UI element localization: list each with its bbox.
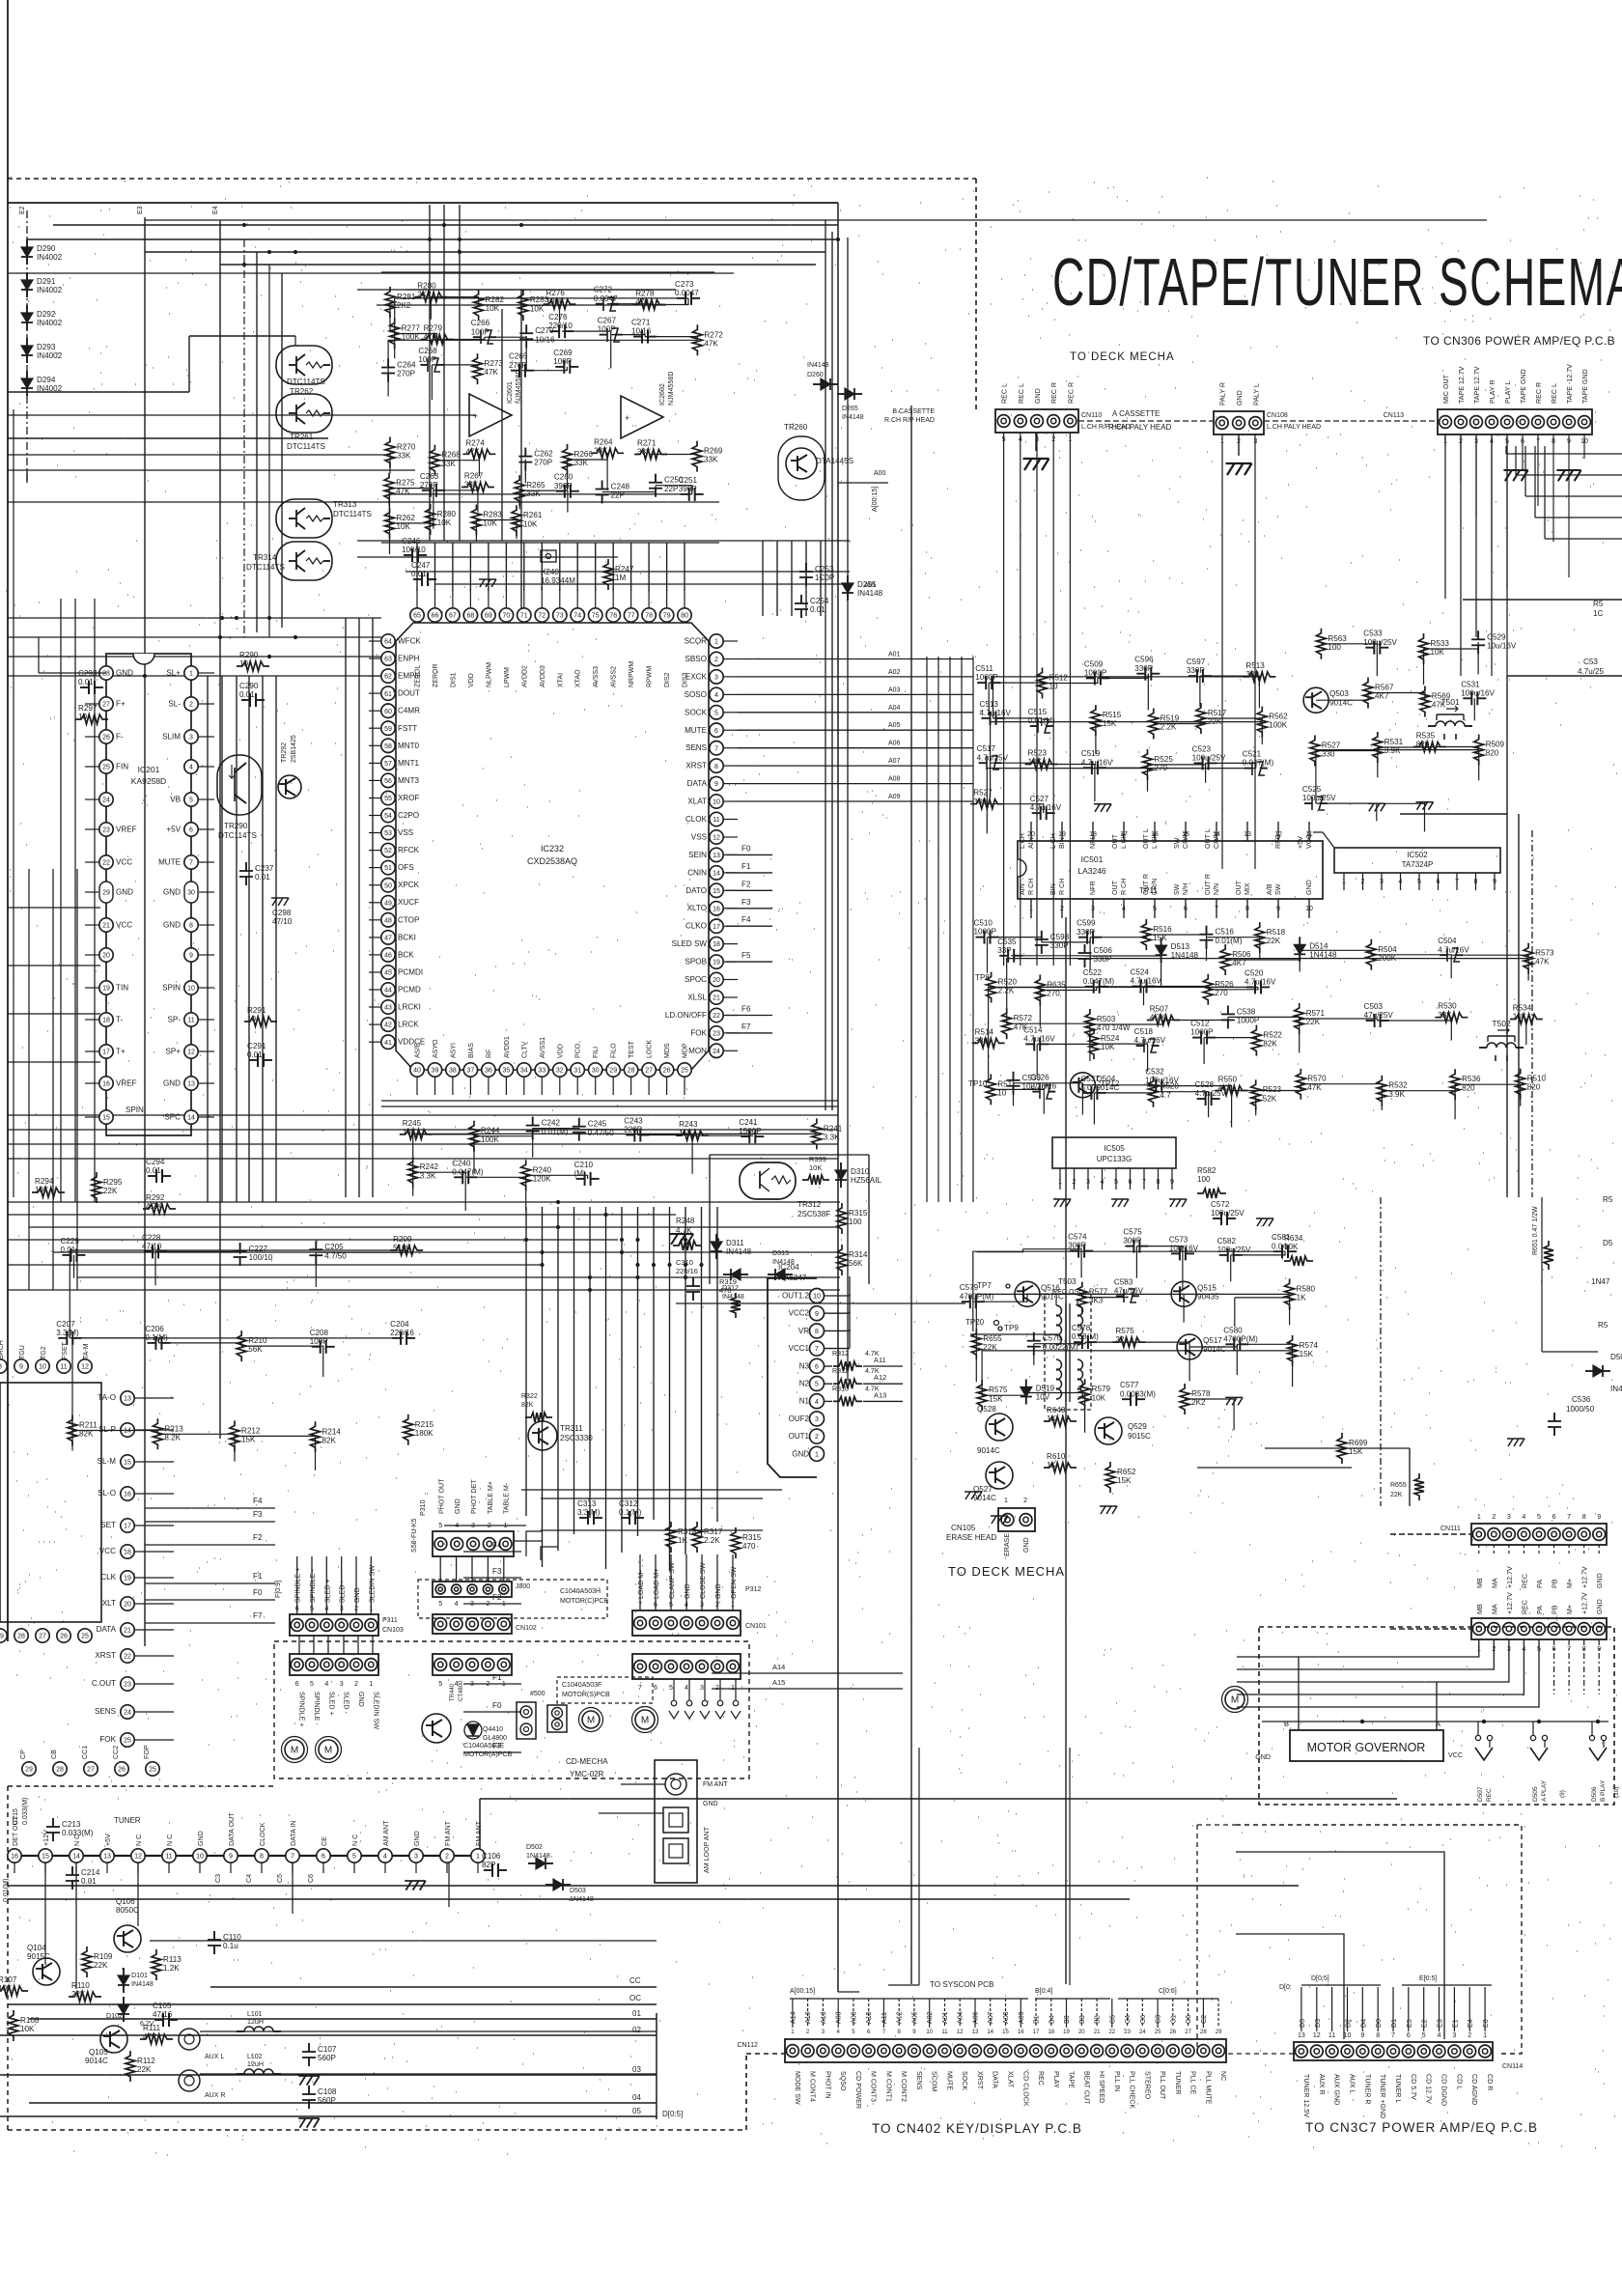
svg-text:7: 7 bbox=[1567, 1513, 1571, 1521]
svg-text:6: 6 bbox=[1407, 2031, 1411, 2039]
svg-text:21: 21 bbox=[713, 995, 720, 1002]
svg-text:SPOB: SPOB bbox=[685, 958, 708, 966]
svg-text:100P: 100P bbox=[553, 357, 572, 366]
svg-text:IN4002: IN4002 bbox=[37, 319, 63, 327]
svg-text:59: 59 bbox=[384, 726, 392, 733]
svg-text:10K: 10K bbox=[523, 519, 538, 528]
svg-text:C574: C574 bbox=[1068, 1233, 1087, 1242]
svg-text:6: 6 bbox=[295, 1680, 299, 1688]
svg-text:47u/25V: 47u/25V bbox=[1364, 1011, 1394, 1020]
svg-text:IC232: IC232 bbox=[541, 844, 564, 854]
svg-text:R243: R243 bbox=[679, 1120, 698, 1129]
svg-text:1: 1 bbox=[714, 639, 718, 646]
svg-text:F7: F7 bbox=[253, 1611, 263, 1620]
svg-text:D313: D313 bbox=[772, 1249, 789, 1257]
svg-text:R212: R212 bbox=[241, 1426, 261, 1435]
svg-text:6: 6 bbox=[815, 1363, 819, 1370]
svg-text:XLAT: XLAT bbox=[687, 798, 707, 806]
svg-text:17: 17 bbox=[1033, 2030, 1040, 2035]
svg-text:C251: C251 bbox=[679, 476, 698, 485]
svg-text:R315: R315 bbox=[849, 1209, 868, 1218]
svg-text:820: 820 bbox=[1486, 749, 1499, 758]
svg-text:R262: R262 bbox=[397, 514, 416, 522]
svg-text:IN4148: IN4148 bbox=[131, 1980, 154, 1988]
svg-text:24: 24 bbox=[124, 1710, 131, 1717]
svg-text:STEREO: STEREO bbox=[1143, 2071, 1151, 2100]
svg-text:4.7u/16V: 4.7u/16V bbox=[1030, 803, 1062, 812]
svg-text:SLED SW: SLED SW bbox=[672, 939, 708, 948]
svg-text:CLOCK: CLOCK bbox=[259, 1822, 266, 1846]
svg-text:43: 43 bbox=[384, 1005, 392, 1012]
svg-text:33K: 33K bbox=[464, 481, 479, 490]
svg-text:(M): (M) bbox=[574, 1169, 586, 1178]
svg-text:3: 3 bbox=[815, 1416, 819, 1423]
svg-text:M: M bbox=[291, 1746, 298, 1756]
svg-text:C538: C538 bbox=[1237, 1007, 1256, 1016]
svg-text:N1: N1 bbox=[799, 1397, 810, 1406]
svg-text:R312: R312 bbox=[832, 1350, 849, 1358]
svg-text:RPWM: RPWM bbox=[647, 666, 654, 687]
svg-text:56: 56 bbox=[384, 778, 392, 785]
svg-text:R271: R271 bbox=[637, 439, 657, 448]
svg-text:51: 51 bbox=[384, 865, 392, 872]
svg-text:R655: R655 bbox=[1390, 1482, 1407, 1489]
svg-text:R578: R578 bbox=[1191, 1389, 1211, 1398]
svg-text:0.047(M): 0.047(M) bbox=[1083, 977, 1115, 986]
svg-text:MIC OUT: MIC OUT bbox=[1442, 374, 1450, 404]
svg-text:ERASE HEAD: ERASE HEAD bbox=[946, 1533, 996, 1542]
svg-text:E4: E4 bbox=[212, 206, 219, 214]
svg-text:SLEDIN SW: SLEDIN SW bbox=[372, 1692, 379, 1729]
svg-text:N C: N C bbox=[166, 1834, 174, 1846]
svg-text:CLTV: CLTV bbox=[521, 1041, 528, 1058]
svg-text:10K: 10K bbox=[35, 1186, 49, 1194]
svg-text:820: 820 bbox=[1416, 741, 1430, 749]
svg-text:20: 20 bbox=[124, 1602, 131, 1609]
svg-text:53: 53 bbox=[384, 830, 392, 837]
svg-text:4: 4 bbox=[189, 765, 193, 771]
svg-text:C582: C582 bbox=[1217, 1237, 1237, 1246]
svg-text:470: 470 bbox=[719, 1286, 732, 1295]
svg-text:R275: R275 bbox=[396, 479, 415, 488]
svg-text:TG2: TG2 bbox=[41, 1346, 47, 1359]
svg-text:XLSL: XLSL bbox=[687, 994, 707, 1002]
svg-text:TO DECK MECHA: TO DECK MECHA bbox=[948, 1564, 1065, 1579]
svg-text:2SC3330: 2SC3330 bbox=[560, 1434, 593, 1442]
svg-text:+12.7V: +12.7V bbox=[1506, 1592, 1514, 1614]
svg-text:SL-O: SL-O bbox=[98, 1489, 116, 1498]
svg-text:24: 24 bbox=[102, 798, 110, 804]
svg-text:16: 16 bbox=[713, 906, 720, 912]
svg-text:SL-M: SL-M bbox=[98, 1457, 117, 1466]
svg-text:29: 29 bbox=[0, 1634, 4, 1640]
svg-text:IC505: IC505 bbox=[1104, 1144, 1125, 1153]
svg-text:01: 01 bbox=[632, 2009, 641, 2018]
svg-text:SP+: SP+ bbox=[165, 1048, 181, 1056]
svg-text:XRST: XRST bbox=[976, 2071, 984, 2090]
svg-text:R5: R5 bbox=[1593, 600, 1604, 608]
svg-text:SLED -: SLED - bbox=[343, 1692, 350, 1715]
svg-text:XLTO: XLTO bbox=[687, 904, 707, 912]
svg-text:4: 4 bbox=[455, 1522, 459, 1529]
svg-text:C575: C575 bbox=[1123, 1228, 1142, 1237]
svg-text:OUT: OUT bbox=[1111, 833, 1119, 849]
svg-text:R265: R265 bbox=[526, 481, 545, 490]
svg-text:C268: C268 bbox=[418, 347, 437, 355]
svg-text:0.01: 0.01 bbox=[239, 690, 255, 699]
svg-text:2.2K: 2.2K bbox=[704, 1536, 720, 1545]
svg-text:FIN: FIN bbox=[116, 763, 128, 771]
svg-text:R522: R522 bbox=[1263, 1031, 1282, 1040]
svg-text:Q104: Q104 bbox=[27, 1944, 46, 1952]
svg-text:R399: R399 bbox=[809, 1155, 826, 1163]
svg-text:R640: R640 bbox=[1047, 1406, 1066, 1414]
svg-text:R5: R5 bbox=[1603, 1195, 1613, 1204]
svg-text:REC: REC bbox=[1521, 1600, 1528, 1614]
svg-text:3: 3 bbox=[470, 1680, 474, 1688]
svg-text:OUT L: OUT L bbox=[1204, 828, 1212, 849]
svg-text:28: 28 bbox=[56, 1767, 64, 1774]
svg-text:R570: R570 bbox=[1307, 1075, 1327, 1083]
svg-text:54: 54 bbox=[384, 813, 392, 820]
svg-text:C583: C583 bbox=[1114, 1277, 1133, 1286]
svg-text:CD R: CD R bbox=[1486, 2074, 1494, 2090]
svg-text:3.3(M): 3.3(M) bbox=[56, 1329, 79, 1337]
svg-text:IN4002: IN4002 bbox=[37, 286, 63, 294]
svg-text:33K: 33K bbox=[637, 448, 652, 457]
svg-text:36: 36 bbox=[485, 1068, 492, 1075]
svg-text:F2: F2 bbox=[253, 1533, 263, 1542]
svg-text:R270: R270 bbox=[397, 443, 416, 452]
svg-text:16: 16 bbox=[11, 1854, 18, 1861]
svg-text:1000P: 1000P bbox=[1190, 1028, 1213, 1037]
svg-text:47/10: 47/10 bbox=[272, 917, 293, 926]
svg-text:BIAS: BIAS bbox=[468, 1043, 475, 1058]
svg-text:15: 15 bbox=[1002, 2030, 1009, 2035]
svg-text:50: 50 bbox=[384, 882, 392, 889]
svg-text:TUNER 12.5V: TUNER 12.5V bbox=[1302, 2074, 1310, 2117]
svg-text:1000P: 1000P bbox=[975, 673, 997, 682]
svg-text:CD L: CD L bbox=[1455, 2074, 1463, 2089]
svg-text:R315: R315 bbox=[742, 1533, 762, 1542]
svg-text:LOAD M+: LOAD M+ bbox=[653, 1569, 660, 1599]
svg-text:22: 22 bbox=[1108, 2030, 1115, 2035]
svg-text:REC L: REC L bbox=[1551, 383, 1558, 404]
svg-text:PA: PA bbox=[1536, 1606, 1544, 1614]
svg-text:LRCK: LRCK bbox=[398, 1021, 419, 1029]
svg-text:OUT R: OUT R bbox=[1204, 874, 1212, 895]
svg-text:VR: VR bbox=[798, 1327, 809, 1335]
svg-text:OC: OC bbox=[629, 1994, 641, 2002]
svg-text:D0: D0 bbox=[1375, 2019, 1383, 2028]
svg-text:AUX L: AUX L bbox=[1349, 2074, 1356, 2094]
svg-text:R655: R655 bbox=[983, 1334, 1002, 1343]
svg-text:R527: R527 bbox=[1322, 742, 1341, 750]
svg-text:26: 26 bbox=[102, 735, 110, 742]
svg-text:D4: D4 bbox=[1359, 2019, 1367, 2028]
svg-text:03: 03 bbox=[632, 2065, 641, 2074]
svg-text:CNIN: CNIN bbox=[687, 868, 707, 877]
svg-text:AM ANT: AM ANT bbox=[382, 1820, 390, 1846]
svg-text:IN414: IN414 bbox=[1610, 1385, 1622, 1393]
svg-text:R264: R264 bbox=[594, 437, 613, 446]
svg-text:SBSO: SBSO bbox=[685, 655, 708, 663]
svg-text:DET OUT: DET OUT bbox=[12, 1815, 19, 1846]
svg-text:DATO: DATO bbox=[685, 886, 707, 895]
svg-text:C5: C5 bbox=[276, 1874, 284, 1883]
svg-text:AUX R: AUX R bbox=[205, 2092, 225, 2099]
svg-text:18: 18 bbox=[713, 941, 720, 948]
svg-text:9015C: 9015C bbox=[27, 1952, 50, 1961]
svg-text:4: 4 bbox=[685, 1684, 688, 1692]
svg-text:GL4800: GL4800 bbox=[483, 1735, 507, 1742]
svg-text:M: M bbox=[641, 1716, 649, 1726]
svg-text:8: 8 bbox=[0, 1364, 2, 1371]
svg-text:76: 76 bbox=[609, 613, 617, 620]
svg-text:C529: C529 bbox=[1487, 632, 1506, 641]
svg-text:D291: D291 bbox=[37, 277, 56, 286]
svg-text:R297: R297 bbox=[78, 704, 98, 713]
svg-text:A13: A13 bbox=[874, 1390, 886, 1399]
svg-text:OFS: OFS bbox=[398, 863, 414, 872]
svg-text:GND: GND bbox=[163, 921, 181, 930]
svg-text:10: 10 bbox=[247, 1015, 257, 1023]
svg-text:10: 10 bbox=[813, 1294, 821, 1301]
svg-text:17: 17 bbox=[713, 924, 720, 931]
svg-text:C522: C522 bbox=[1083, 968, 1103, 977]
svg-text:R247: R247 bbox=[615, 565, 634, 574]
svg-text:10K: 10K bbox=[1028, 758, 1043, 767]
svg-text:0.68(M): 0.68(M) bbox=[1072, 1332, 1099, 1341]
svg-text:17: 17 bbox=[102, 1050, 110, 1056]
svg-text:TP9: TP9 bbox=[1004, 1324, 1019, 1332]
svg-text:VCC: VCC bbox=[116, 921, 132, 930]
svg-text:E0: E0 bbox=[1482, 2019, 1490, 2028]
svg-text:65: 65 bbox=[413, 613, 421, 620]
svg-text:D5: D5 bbox=[1299, 2019, 1306, 2028]
svg-text:GND: GND bbox=[163, 1079, 181, 1088]
svg-text:10: 10 bbox=[187, 986, 195, 993]
svg-text:MNT3: MNT3 bbox=[398, 776, 420, 785]
svg-text:22K: 22K bbox=[1390, 1492, 1403, 1498]
svg-text:SQSO: SQSO bbox=[839, 2071, 847, 2091]
svg-text:C266: C266 bbox=[471, 319, 490, 327]
svg-text:35: 35 bbox=[503, 1068, 511, 1075]
svg-text:3: 3 bbox=[414, 1854, 418, 1861]
svg-text:R575: R575 bbox=[1115, 1327, 1134, 1335]
svg-text:C1040A503H: C1040A503H bbox=[560, 1588, 601, 1595]
svg-text:MUTE: MUTE bbox=[946, 2071, 954, 2090]
svg-text:15: 15 bbox=[124, 1460, 131, 1467]
svg-text:R535: R535 bbox=[1416, 732, 1436, 741]
svg-text:8: 8 bbox=[189, 923, 193, 930]
svg-text:CN111: CN111 bbox=[1440, 1526, 1461, 1532]
svg-text:R112: R112 bbox=[137, 2057, 155, 2065]
svg-text:XLT: XLT bbox=[102, 1599, 116, 1608]
svg-text:33K: 33K bbox=[1438, 1011, 1452, 1020]
svg-text:M+: M+ bbox=[1566, 1579, 1574, 1588]
svg-text:R214: R214 bbox=[322, 1427, 342, 1436]
svg-text:R652: R652 bbox=[1117, 1468, 1136, 1476]
svg-text:TEST: TEST bbox=[629, 1040, 635, 1058]
svg-text:M: M bbox=[324, 1746, 332, 1756]
svg-text:CTOP: CTOP bbox=[398, 915, 419, 924]
svg-text:D[0:: D[0: bbox=[1279, 1984, 1292, 1991]
svg-text:C227: C227 bbox=[249, 1245, 268, 1253]
svg-text:SRCH: SRCH bbox=[0, 1340, 5, 1359]
svg-text:100u/16V: 100u/16V bbox=[1145, 1077, 1179, 1085]
svg-text:L CH: L CH bbox=[1151, 833, 1159, 849]
svg-text:C516: C516 bbox=[1216, 928, 1235, 937]
svg-text:RFC: RFC bbox=[1274, 834, 1282, 849]
svg-text:31: 31 bbox=[573, 1068, 581, 1075]
svg-text:2: 2 bbox=[815, 1434, 819, 1441]
svg-text:C269: C269 bbox=[553, 349, 573, 357]
svg-text:2: 2 bbox=[488, 1522, 491, 1529]
svg-text:10: 10 bbox=[196, 1854, 204, 1861]
svg-text:22: 22 bbox=[1115, 1335, 1125, 1344]
svg-text:4.7u/16V: 4.7u/16V bbox=[1131, 977, 1162, 986]
svg-text:B[0:4]: B[0:4] bbox=[1035, 1988, 1052, 1995]
svg-text:C106: C106 bbox=[482, 1852, 501, 1861]
svg-text:CC1: CC1 bbox=[81, 1746, 89, 1759]
svg-text:32: 32 bbox=[556, 1068, 564, 1075]
svg-text:N C: N C bbox=[351, 1834, 359, 1846]
svg-text:RF: RF bbox=[486, 1050, 492, 1058]
svg-text:13: 13 bbox=[1298, 2031, 1305, 2039]
svg-text:NJM4558D: NJM4558D bbox=[667, 372, 675, 406]
svg-text:EXCK: EXCK bbox=[685, 672, 708, 681]
svg-text:XRST: XRST bbox=[685, 762, 707, 770]
svg-text:A07: A07 bbox=[888, 758, 901, 765]
svg-text:3: 3 bbox=[471, 1522, 475, 1529]
svg-text:TO CN402 KEY/DISPLAY P.C.B: TO CN402 KEY/DISPLAY P.C.B bbox=[872, 2121, 1082, 2136]
svg-text:3: 3 bbox=[470, 1600, 474, 1608]
svg-text:WFCK: WFCK bbox=[398, 637, 421, 646]
svg-text:560P: 560P bbox=[318, 2054, 336, 2062]
svg-text:CT4800: CT4800 bbox=[459, 1680, 464, 1701]
svg-text:4: 4 bbox=[1522, 1513, 1525, 1521]
svg-text:9: 9 bbox=[229, 1854, 233, 1861]
svg-text:R523: R523 bbox=[1263, 1085, 1282, 1094]
svg-text:TR312: TR312 bbox=[797, 1200, 822, 1209]
svg-text:26: 26 bbox=[60, 1634, 68, 1640]
svg-text:330P: 330P bbox=[1077, 928, 1095, 937]
svg-text:4.7K: 4.7K bbox=[1150, 1014, 1166, 1022]
svg-text:TAPE GND: TAPE GND bbox=[1581, 369, 1589, 404]
svg-text:25: 25 bbox=[102, 765, 110, 771]
svg-text:OUT L: OUT L bbox=[1142, 828, 1150, 849]
svg-text:F-: F- bbox=[116, 733, 124, 742]
svg-text:4.7K: 4.7K bbox=[676, 1226, 692, 1235]
svg-text:CLOSE SW: CLOSE SW bbox=[699, 1562, 707, 1599]
svg-text:9: 9 bbox=[714, 781, 718, 788]
svg-text:C313: C313 bbox=[577, 1499, 597, 1508]
svg-text:MOTOR(A)PCB: MOTOR(A)PCB bbox=[463, 1750, 513, 1758]
svg-text:CN112: CN112 bbox=[737, 2041, 758, 2049]
svg-text:CD-MECHA: CD-MECHA bbox=[566, 1757, 608, 1766]
svg-text:PB: PB bbox=[1552, 1605, 1559, 1614]
svg-text:VREF: VREF bbox=[116, 1079, 137, 1088]
svg-text:TA7324P: TA7324P bbox=[1402, 860, 1434, 869]
svg-text:73: 73 bbox=[556, 613, 564, 620]
svg-text:D293: D293 bbox=[37, 343, 56, 351]
svg-text:C527: C527 bbox=[1030, 795, 1049, 803]
svg-text:100u/25V: 100u/25V bbox=[1211, 1209, 1244, 1218]
svg-text:5: 5 bbox=[714, 710, 718, 716]
svg-text:LRCKI: LRCKI bbox=[398, 1003, 421, 1012]
svg-text:15K: 15K bbox=[1300, 1350, 1314, 1358]
svg-text:0.01: 0.01 bbox=[78, 678, 94, 686]
svg-text:11: 11 bbox=[713, 817, 719, 824]
svg-text:12: 12 bbox=[134, 1854, 142, 1861]
svg-text:C3: C3 bbox=[214, 1874, 222, 1883]
svg-text:18: 18 bbox=[124, 1550, 131, 1556]
svg-text:9014C: 9014C bbox=[973, 1494, 996, 1502]
svg-text:E1: E1 bbox=[1451, 2019, 1459, 2028]
svg-text:REC L: REC L bbox=[1001, 383, 1009, 404]
svg-text:R280: R280 bbox=[437, 510, 457, 518]
svg-text:R504: R504 bbox=[1378, 945, 1397, 954]
svg-text:C241: C241 bbox=[739, 1118, 758, 1127]
svg-text:270P: 270P bbox=[509, 361, 527, 370]
svg-text:VCC: VCC bbox=[1448, 1751, 1463, 1759]
svg-text:2SB1425: 2SB1425 bbox=[291, 735, 297, 763]
svg-text:PLL CE: PLL CE bbox=[1189, 2071, 1197, 2094]
svg-text:MA: MA bbox=[1491, 1578, 1498, 1588]
svg-text:4.7u/16V: 4.7u/16V bbox=[980, 709, 1012, 717]
svg-text:T501: T501 bbox=[1440, 697, 1460, 707]
svg-text:ASYI: ASYI bbox=[450, 1043, 457, 1058]
svg-text:300P: 300P bbox=[1068, 1242, 1086, 1250]
svg-text:1K: 1K bbox=[678, 1536, 688, 1545]
svg-text:47/16: 47/16 bbox=[153, 2010, 173, 2019]
svg-text:D310: D310 bbox=[851, 1167, 870, 1176]
svg-text:20: 20 bbox=[1078, 2030, 1085, 2035]
svg-text:55: 55 bbox=[384, 796, 392, 802]
svg-text:+5V: +5V bbox=[104, 1834, 112, 1846]
svg-text:MNT0: MNT0 bbox=[398, 742, 420, 750]
svg-text:R517: R517 bbox=[1208, 709, 1227, 717]
svg-text:GND: GND bbox=[1596, 1599, 1604, 1614]
svg-text:330: 330 bbox=[975, 1037, 989, 1046]
svg-text:270P: 270P bbox=[534, 459, 552, 467]
svg-text:T-: T- bbox=[116, 1016, 123, 1024]
svg-text:23: 23 bbox=[124, 1682, 131, 1689]
svg-text:DOUT: DOUT bbox=[398, 689, 420, 698]
svg-text:25: 25 bbox=[124, 1738, 131, 1745]
svg-text:R273: R273 bbox=[485, 359, 504, 368]
svg-text:C.OUT: C.OUT bbox=[92, 1679, 116, 1688]
svg-text:IC2602: IC2602 bbox=[658, 383, 666, 406]
svg-text:82K: 82K bbox=[322, 1436, 337, 1444]
svg-text:T502: T502 bbox=[1492, 1019, 1511, 1028]
svg-text:PALY L: PALY L bbox=[1252, 383, 1260, 406]
svg-text:AIN: AIN bbox=[1019, 883, 1026, 895]
svg-text:M+: M+ bbox=[1566, 1605, 1574, 1614]
svg-text:4700P(M): 4700P(M) bbox=[1223, 1334, 1258, 1343]
svg-text:C265: C265 bbox=[509, 352, 528, 361]
svg-text:L102: L102 bbox=[247, 2054, 263, 2060]
svg-text:47K: 47K bbox=[485, 368, 499, 377]
svg-text:R532: R532 bbox=[1388, 1081, 1408, 1090]
svg-text:37: 37 bbox=[467, 1068, 475, 1075]
svg-text:10u/16V: 10u/16V bbox=[1487, 641, 1517, 650]
svg-text:TAPE -12.7V: TAPE -12.7V bbox=[1566, 364, 1574, 404]
svg-text:Q517: Q517 bbox=[1203, 1336, 1222, 1345]
svg-text:FM ANT: FM ANT bbox=[444, 1820, 452, 1846]
svg-text:CN113: CN113 bbox=[1384, 412, 1404, 419]
